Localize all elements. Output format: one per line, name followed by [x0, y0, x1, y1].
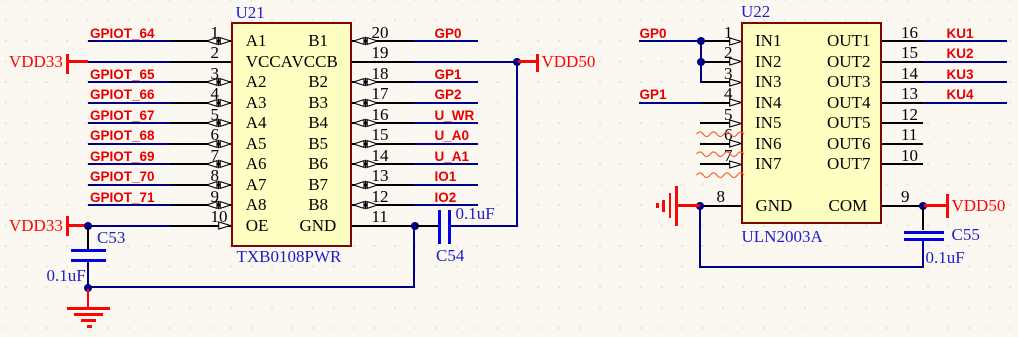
U22 pin name GND [756, 196, 793, 215]
U21 pin name B5 [308, 134, 328, 153]
U21 pin 11 stub [352, 225, 414, 227]
U22 pin number 14 [901, 64, 918, 83]
U21 pin name A4 [246, 113, 267, 132]
net label GPIOT_71 [90, 190, 155, 205]
U22 pin 3 input arrow [729, 78, 742, 87]
U22 pin number 4 [724, 84, 733, 103]
U22 pin number 5 [724, 105, 733, 124]
U22 pin name OUT6 [827, 134, 870, 153]
U22 pin 8 stub [700, 205, 741, 207]
net label KU2 [947, 46, 974, 61]
capacitor C53 plates [71, 249, 106, 252]
U22 pin number 7 [724, 146, 733, 165]
U21 pin name B6 [308, 154, 328, 173]
net label GP0 [640, 26, 667, 41]
U21 pin number 11 [372, 207, 388, 226]
wire pin2 to VDD33 [88, 61, 170, 63]
bottom gnd wire horizontal [88, 286, 415, 288]
net label U_A1 [435, 149, 470, 164]
U22 designator [741, 2, 770, 21]
U21 pin 13 bidirectional arrow [353, 180, 378, 190]
U21 pin 17 bidirectional arrow [353, 98, 378, 108]
U21 pin 16 stub [352, 122, 414, 124]
U22 pin 10 stub [882, 163, 923, 165]
net label GPIOT_66 [90, 87, 155, 102]
U21 pin 4 stub [170, 102, 231, 104]
unconnected-pin marker under pin 5 [696, 130, 745, 138]
U21 pin 13 stub [352, 184, 414, 186]
U22 pin number 8 [717, 187, 726, 206]
U22 pin 3 stub [700, 81, 730, 83]
U22 pin 6 input arrow [729, 139, 742, 148]
wire VDD50 branch vertical [516, 62, 518, 226]
U21 pin 12 stub [352, 204, 414, 206]
U21 pin 20 stub [352, 40, 414, 42]
U21 pin 10 input arrow [218, 221, 231, 230]
U21 pin name A2 [246, 72, 267, 91]
net label GPIOT_69 [90, 149, 155, 164]
U22 pin number 12 [901, 105, 918, 124]
U22 pin 16 stub [882, 40, 923, 42]
U21 pin 5 stub [170, 122, 231, 124]
U21 pin number 13 [372, 166, 389, 185]
U21 pin number 12 [372, 187, 389, 206]
U21 pin 15 stub [352, 143, 414, 145]
U21 pin 3 stub [170, 81, 231, 83]
capacitor C55 top lead [922, 207, 924, 231]
junction VDD50 branch [513, 58, 521, 66]
U22 pin number 1 [724, 23, 733, 42]
U21 pin 9 stub [170, 204, 231, 206]
C54 designator [436, 246, 464, 265]
op-amp U21 body (TXB0108PWR level shifter) [231, 22, 353, 247]
U21 pin name VCCA [246, 52, 293, 71]
power port VDD50 (right) [924, 204, 946, 206]
U22 pin number 11 [901, 125, 917, 144]
U21 pin number 4 [211, 84, 220, 103]
wire net GP2 [414, 102, 479, 104]
junction GP0 pin1 [697, 37, 705, 45]
wire net GPIOT_69 [88, 163, 170, 165]
U21 pin 6 stub [170, 143, 231, 145]
capacitor C53 bottom lead [87, 262, 89, 288]
junction GP0 pin2 [697, 58, 705, 66]
power port VDD33 (pin 10 row) [9, 216, 63, 235]
net label GPIOT_64 [90, 26, 155, 41]
U21 pin 1 stub [170, 40, 231, 42]
U21 pin name B8 [308, 195, 328, 214]
U21 value TXB0108PWR [237, 247, 342, 266]
unconnected-pin marker under pin 7 [696, 171, 745, 179]
U21 pin 8 bidirectional arrow [206, 180, 231, 190]
U21 pin name A7 [246, 175, 267, 194]
U22 pin 7 stub [700, 163, 730, 165]
wire pin10 OE to VDD33 [88, 225, 170, 227]
net label KU4 [947, 87, 974, 102]
U21 pin 3 bidirectional arrow [206, 77, 231, 87]
U21 pin name OE [246, 216, 269, 235]
U21 pin 6 bidirectional arrow [206, 139, 231, 149]
U21 pin number 6 [211, 125, 220, 144]
wire net KU4 [923, 102, 1007, 104]
net label KU1 [947, 26, 974, 41]
wire net IO1 [414, 184, 479, 186]
U22 pin 7 input arrow [729, 160, 742, 169]
U21 pin name A3 [246, 93, 267, 112]
net label GPIOT_67 [90, 108, 155, 123]
junction pin9 [919, 202, 927, 210]
U21 pin number 10 [211, 207, 228, 226]
U21 pin 17 stub [352, 102, 414, 104]
wire net GPIOT_65 [88, 81, 170, 83]
U21 pin number 19 [372, 43, 389, 62]
junction C53 bottom [84, 284, 92, 292]
C54 value 0.1uF [456, 204, 495, 223]
wire C54 right to VDD50 branch [451, 225, 518, 227]
net label GP0 [435, 26, 462, 41]
junction at VDD33 / C53 top [84, 222, 92, 230]
U21 pin 7 bidirectional arrow [206, 159, 231, 169]
U22 pin name OUT5 [827, 113, 870, 132]
U22 pin name IN4 [755, 93, 781, 112]
wire bottom across to C55 [699, 266, 925, 268]
U22 pin 9 COM stub [882, 205, 923, 207]
U21 pin 7 stub [170, 163, 231, 165]
U21 pin 18 bidirectional arrow [353, 77, 378, 87]
wire net U_A0 [414, 143, 479, 145]
U22 pin name OUT7 [827, 154, 870, 173]
U21 pin 1 bidirectional arrow [206, 36, 231, 46]
U21 pin 10 stub [170, 225, 231, 227]
U22 pin number 3 [724, 64, 733, 83]
U22 pin 15 stub [882, 61, 923, 63]
U21 pin name GND [300, 216, 337, 235]
U21 pin name B4 [308, 113, 328, 132]
U22 pin 13 stub [882, 102, 923, 104]
net label GPIOT_65 [90, 67, 155, 82]
U21 pin 8 stub [170, 184, 231, 186]
power ground symbol [67, 307, 111, 310]
wire net GPIOT_71 [88, 204, 170, 206]
net label IO1 [435, 169, 457, 184]
U21 pin 16 bidirectional arrow [353, 118, 378, 128]
wire net KU1 [923, 40, 1007, 42]
U22 pin name OUT1 [827, 31, 870, 50]
U21 pin number 20 [372, 23, 389, 42]
U21 pin number 15 [372, 125, 389, 144]
wire net U_WR [414, 122, 479, 124]
net label GP1 [435, 67, 462, 82]
net label U_A0 [435, 128, 470, 143]
wire net GP0 [414, 40, 479, 42]
U22 pin 5 input arrow [729, 119, 742, 128]
U22 pin name OUT4 [827, 93, 870, 112]
wire net KU3 [923, 81, 1007, 83]
wire net GPIOT_68 [88, 143, 170, 145]
U21 pin name B1 [308, 31, 328, 50]
earth ground symbol [678, 204, 700, 206]
net label U_WR [435, 108, 475, 123]
wire net GP1 [414, 81, 479, 83]
U21 pin number 16 [372, 105, 389, 124]
U22 value ULN2003A [742, 227, 823, 246]
U21 pin name A5 [246, 134, 267, 153]
net label IO2 [435, 190, 457, 205]
junction pin8 [696, 202, 704, 210]
U22 pin number 2 [724, 43, 733, 62]
U21 pin name A6 [246, 154, 267, 173]
U21 pin number 18 [372, 64, 389, 83]
U22 pin number 6 [724, 125, 733, 144]
ground stem [87, 289, 89, 308]
U21 pin 12 bidirectional arrow [353, 200, 378, 210]
U21 pin 2 stub [170, 61, 231, 63]
U21 pin number 7 [211, 146, 220, 165]
U21 pin number 8 [211, 166, 220, 185]
U22 pin name IN7 [755, 154, 781, 173]
wire pin11 GND to C54 [411, 222, 419, 230]
capacitor C53 top lead [87, 227, 89, 250]
U22 pin 2 stub [700, 61, 730, 63]
U21 pin 19 stub [352, 61, 414, 63]
U22 pin 4 stub [700, 102, 730, 104]
U21 pin name B2 [308, 72, 328, 91]
U22 pin name IN5 [755, 113, 781, 132]
U22 pin 14 stub [882, 81, 923, 83]
wire net GPIOT_67 [88, 122, 170, 124]
U22 pin 11 stub [882, 143, 923, 145]
U21 pin 5 bidirectional arrow [206, 118, 231, 128]
U22 pin name IN3 [755, 72, 781, 91]
capacitor C55 plates [904, 231, 944, 234]
U21 pin 4 bidirectional arrow [206, 98, 231, 108]
capacitor C54 plates [438, 210, 441, 244]
power port VDD33 (pin 2 row) [9, 52, 63, 71]
U21 pin number 1 [211, 23, 220, 42]
U21 pin 9 bidirectional arrow [206, 200, 231, 210]
U22 pin 12 stub [882, 122, 923, 124]
U22 pin number 10 [901, 146, 918, 165]
net label GPIOT_68 [90, 128, 155, 143]
U21 pin 20 bidirectional arrow [353, 36, 378, 46]
U21 pin number 3 [211, 64, 220, 83]
wire net GPIOT_66 [88, 102, 170, 104]
net label GP1 [640, 87, 667, 102]
unconnected-pin marker under pin 6 [696, 150, 745, 158]
C55 designator [952, 225, 980, 244]
U21 pin number 5 [211, 105, 220, 124]
U22 pin name IN1 [755, 31, 781, 50]
U22 pin 1 stub [700, 40, 730, 42]
U21 pin name B7 [308, 175, 328, 194]
U22 pin number 15 [901, 43, 918, 62]
U22 pin 2 input arrow [729, 57, 742, 66]
U21 pin 14 stub [352, 163, 414, 165]
wire net IO2 [414, 204, 479, 206]
C55 value 0.1uF [926, 248, 965, 267]
power port VDD50 (left) [518, 60, 537, 62]
C53 designator [97, 228, 125, 247]
capacitor C55 bottom lead [922, 241, 924, 268]
U21 pin number 2 [211, 43, 220, 62]
wire net GP1 to U22 pin4 [639, 102, 701, 104]
net label KU3 [947, 67, 974, 82]
wire net KU2 [923, 61, 1007, 63]
net label GP2 [435, 87, 462, 102]
U21 pin number 9 [211, 187, 220, 206]
bottom gnd wire vertical from pin11 junction [413, 227, 415, 289]
U22 pin number 13 [901, 84, 918, 103]
U21 pin 14 bidirectional arrow [353, 159, 378, 169]
wire net GPIOT_70 [88, 184, 170, 186]
net label GPIOT_70 [90, 169, 155, 184]
wire net GP0 to U22 [639, 40, 701, 42]
U22 pin 4 input arrow [729, 98, 742, 107]
U22 pin 5 stub [700, 122, 730, 124]
wire pin19 VCCB to VDD50 [414, 61, 518, 63]
wire net GPIOT_64 [88, 40, 170, 42]
wire pin8 down [699, 207, 701, 268]
U21 pin number 14 [372, 146, 389, 165]
wire net U_A1 [414, 163, 479, 165]
U22 pin name IN2 [755, 52, 781, 71]
U21 pin name A1 [246, 31, 267, 50]
C53 value 0.1uF [47, 266, 86, 285]
U21 pin name B3 [308, 93, 328, 112]
wire GP0 branch vertical [700, 41, 702, 83]
U22 pin name OUT3 [827, 72, 870, 91]
U22 pin number 9 [901, 187, 910, 206]
U21 pin number 17 [372, 84, 389, 103]
U21 designator [236, 3, 265, 22]
U22 pin name COM [829, 196, 868, 215]
U21 pin 18 stub [352, 81, 414, 83]
transistor-array U22 body (ULN2003A) [741, 22, 883, 225]
U21 pin 15 bidirectional arrow [353, 139, 378, 149]
U22 pin number 16 [901, 23, 918, 42]
U21 pin name VCCB [292, 52, 338, 71]
U22 pin name IN6 [755, 134, 781, 153]
U22 pin 1 input arrow [729, 37, 742, 46]
U22 pin name OUT2 [827, 52, 870, 71]
U21 pin name A8 [246, 195, 267, 214]
U22 pin 6 stub [700, 143, 730, 145]
